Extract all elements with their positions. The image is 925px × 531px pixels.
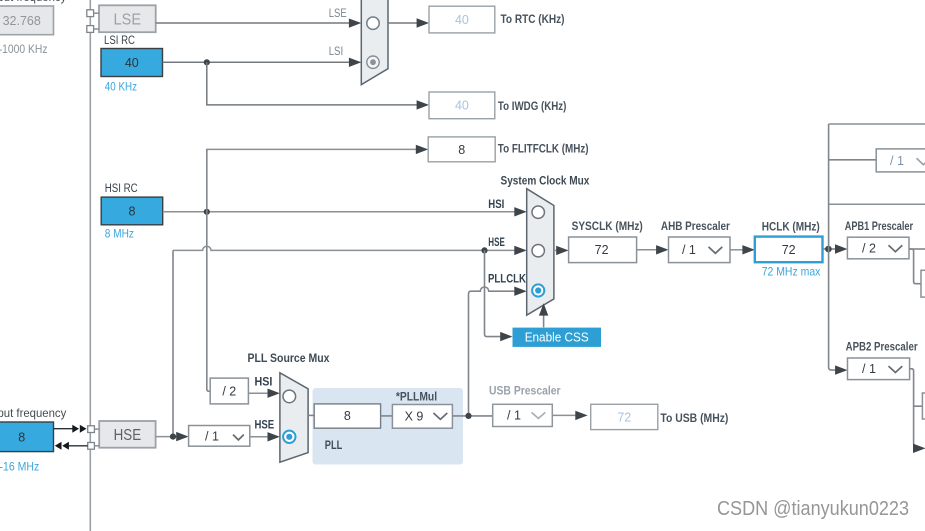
wire CSS branch to Enable CSS <box>485 250 513 341</box>
wire PLL out to USB prescaler <box>452 413 492 419</box>
system mux radio HSI (off) <box>532 206 544 218</box>
wire to PLLMul <box>381 415 393 417</box>
AHB bus panel divider <box>829 203 925 205</box>
wire LSE pin stub bottom <box>94 28 99 30</box>
APB1 prescaler dropdown /2 <box>847 237 909 259</box>
To USB value box 72 <box>591 404 658 429</box>
Cortex prescaler dropdown /1 (clipped) <box>876 149 925 172</box>
svg-text:PLLCLK: PLLCLK <box>488 274 527 286</box>
APB1 peripheral box (clipped) <box>921 270 925 297</box>
RTC mux radio LSI (selected, gray) <box>367 56 379 68</box>
svg-text:To FLITFCLK (MHz): To FLITFCLK (MHz) <box>498 144 589 156</box>
svg-text:40: 40 <box>125 56 139 70</box>
wire HSI out to system mux <box>163 207 527 216</box>
svg-text:40: 40 <box>455 99 469 113</box>
wire SYSCLK to AHB prescaler <box>637 245 669 254</box>
svg-text:8: 8 <box>344 409 351 423</box>
svg-text:Input frequency: Input frequency <box>0 0 66 4</box>
USB prescaler dropdown /1 (disabled) <box>493 404 553 426</box>
oscillator HSE <box>99 421 155 448</box>
svg-text:40: 40 <box>455 13 469 27</box>
svg-text:72: 72 <box>782 243 796 257</box>
svg-text:LSI: LSI <box>329 46 344 58</box>
svg-text:SYSCLK (MHz): SYSCLK (MHz) <box>572 221 643 233</box>
svg-text:AHB Prescaler: AHB Prescaler <box>661 221 730 233</box>
SYSCLK value box 72 <box>569 237 637 263</box>
wire APB2 out <box>910 369 925 453</box>
system mux radio PLLCLK (selected) <box>532 284 544 296</box>
svg-text:HSI: HSI <box>255 377 273 389</box>
svg-text:Input frequency: Input frequency <box>0 406 66 420</box>
PLL mux radio HSE (selected) <box>283 431 295 443</box>
svg-text:8 MHz: 8 MHz <box>105 227 134 241</box>
svg-text:HSE: HSE <box>488 237 505 249</box>
wire HSI to FLITFCLK <box>207 145 428 154</box>
wire mux to PLL input box <box>308 414 314 416</box>
wire LSI to RTC mux <box>163 46 362 67</box>
LSE pin square bottom <box>87 26 94 33</box>
svg-text:To RTC (KHz): To RTC (KHz) <box>501 14 565 26</box>
HSE pin square top <box>88 426 95 433</box>
To FLITFCLK value box <box>428 137 495 162</box>
To IWDG value box <box>429 92 495 119</box>
svg-text:*PLLMul: *PLLMul <box>396 391 437 403</box>
AHB bus panel top edge <box>829 123 925 125</box>
svg-text:40 KHz: 40 KHz <box>105 80 137 94</box>
wire USB prescaler to USB box <box>552 411 587 420</box>
svg-text:/ 1: / 1 <box>890 154 904 168</box>
wire input to HSE with double arrows <box>54 425 87 433</box>
wire PLLCLK to system mux (riser + hop over CSS line) <box>469 287 527 414</box>
svg-text:LSI RC: LSI RC <box>104 35 135 47</box>
wire system mux to SYSCLK <box>554 246 569 255</box>
wire HSE to system mux (with hop over HSI riser) <box>173 246 527 255</box>
svg-text:CSDN @tianyukun0223: CSDN @tianyukun0223 <box>717 498 909 520</box>
svg-text:72: 72 <box>595 243 609 257</box>
svg-text:/ 2: / 2 <box>862 241 876 255</box>
wire AHB to HCLK <box>730 245 755 254</box>
wire LSI to IWDG <box>207 62 429 109</box>
wire HSE return with double arrows <box>55 442 88 450</box>
wire to Cortex divider <box>829 159 877 161</box>
svg-text:8: 8 <box>129 205 136 219</box>
svg-text:/ 1: / 1 <box>862 362 876 376</box>
wire HSE pin stub bottom <box>94 445 99 447</box>
svg-text:System Clock Mux: System Clock Mux <box>501 176 590 188</box>
svg-text:HCLK (MHz): HCLK (MHz) <box>762 221 820 233</box>
svg-text:4-16 MHz: 4-16 MHz <box>0 460 39 474</box>
wire HSE riser from HSE junction <box>172 250 174 436</box>
wire /2 to PLL mux <box>248 389 280 398</box>
system clock mux <box>527 189 554 316</box>
svg-text:72 MHz max: 72 MHz max <box>762 264 821 278</box>
AHB prescaler dropdown /1 <box>669 237 731 263</box>
svg-text:72: 72 <box>617 410 631 424</box>
svg-text:LSE: LSE <box>329 8 347 20</box>
svg-text:To USB (MHz): To USB (MHz) <box>660 413 728 425</box>
HSE pin square bottom <box>88 443 95 450</box>
LSE pin square top <box>87 10 94 17</box>
wire HSI riser (FLITFCLK down to PLL /2) <box>207 149 210 391</box>
svg-text:HSE: HSE <box>114 427 142 444</box>
oscillator LSE <box>99 5 156 32</box>
svg-text:0-1000 KHz: 0-1000 KHz <box>0 42 48 56</box>
svg-text:/ 1: / 1 <box>205 430 219 444</box>
system mux radio HSE (off) <box>532 245 544 257</box>
wire APB1 out <box>909 249 925 284</box>
svg-text:8: 8 <box>458 143 465 157</box>
arrow into APB2 prescaler <box>835 365 847 374</box>
svg-text:/ 1: / 1 <box>682 243 696 257</box>
wire HSE pin stub top <box>94 428 99 430</box>
PLL HSE divider dropdown /1 <box>189 426 250 447</box>
RTC mux radio LSE (off) <box>367 17 379 29</box>
svg-text:Enable CSS: Enable CSS <box>525 330 589 345</box>
RTC clock mux <box>361 0 388 85</box>
divider /2 box <box>210 378 248 404</box>
wire /1 to PLL mux <box>250 432 280 441</box>
To RTC value box <box>429 6 495 33</box>
svg-text:8: 8 <box>18 430 25 444</box>
wire LSE pin stub top <box>94 12 99 14</box>
LSE input value box 32.768 <box>0 6 54 35</box>
wire HCLK into AHB bus panel <box>823 244 848 253</box>
PLLMul dropdown X 9 <box>392 405 452 429</box>
svg-text:PLL Source Mux: PLL Source Mux <box>248 353 331 365</box>
PLL input value box 8 <box>314 404 380 428</box>
svg-text:LSE: LSE <box>114 11 142 28</box>
svg-text:To IWDG (KHz): To IWDG (KHz) <box>498 101 567 113</box>
PLL block background <box>313 388 464 465</box>
svg-text:APB1 Prescaler: APB1 Prescaler <box>845 221 914 233</box>
svg-text:HSI RC: HSI RC <box>105 183 138 195</box>
wire LSE to RTC mux <box>156 8 362 28</box>
svg-text:PLL: PLL <box>325 438 343 452</box>
svg-text:HSE: HSE <box>255 419 275 431</box>
oscillator LSI RC 40 <box>101 49 163 77</box>
button Enable CSS <box>513 328 602 347</box>
svg-text:/ 2: / 2 <box>222 384 236 398</box>
PLL mux radio HSI (off) <box>283 390 296 403</box>
wire HSE to /1 divider <box>156 432 189 441</box>
svg-text:X 9: X 9 <box>405 409 424 423</box>
svg-text:APB2 Prescaler: APB2 Prescaler <box>846 342 918 354</box>
APB2 peripheral box (clipped) <box>922 393 925 419</box>
diagram boundary line <box>89 0 91 531</box>
svg-text:32.768: 32.768 <box>3 14 41 28</box>
PLL source mux <box>280 373 308 462</box>
HSE input value box 8 <box>0 422 54 452</box>
oscillator HSI RC 8 <box>101 197 163 225</box>
wire RTC mux to RTC box <box>388 18 429 27</box>
svg-text:HSI: HSI <box>488 199 504 211</box>
HCLK value box 72 (highlighted) <box>755 237 823 263</box>
APB2 prescaler dropdown /1 <box>848 358 910 380</box>
wire Enable CSS up-arrow into mux <box>539 303 548 327</box>
svg-text:USB Prescaler: USB Prescaler <box>489 385 561 397</box>
wire panel left edge down to APB2 <box>829 124 836 370</box>
svg-text:/ 1: / 1 <box>507 408 521 422</box>
